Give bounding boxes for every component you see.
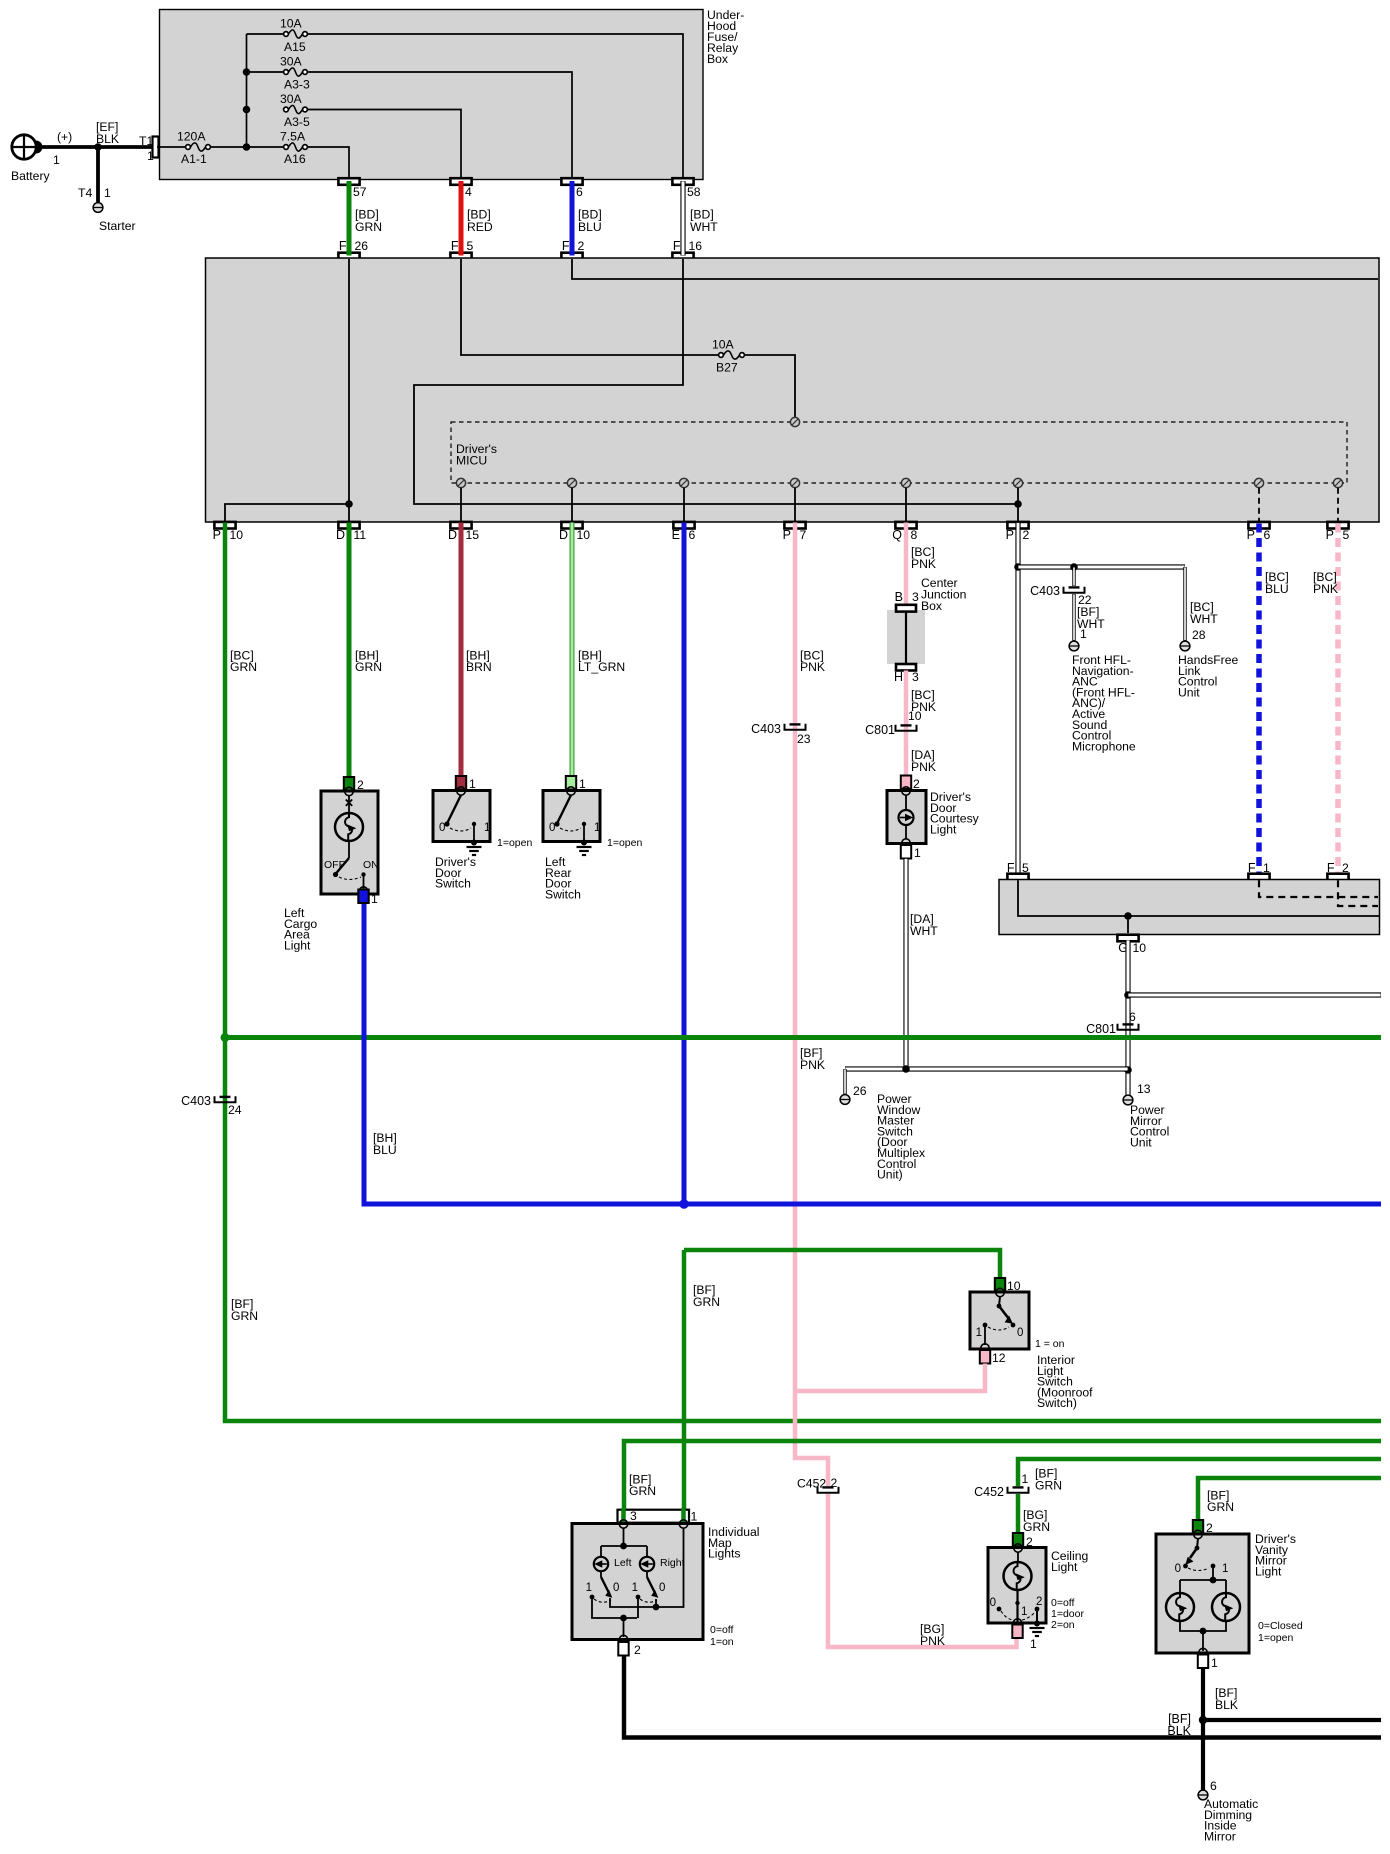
- node P2 wht junction: [1014, 563, 1022, 571]
- wire BF GRN vanity branch: [1198, 1478, 1381, 1520]
- wire fuse A3-3 to pin 6: [307, 72, 572, 179]
- ceiling light ground: [1034, 1621, 1040, 1627]
- svg-text:D: D: [448, 528, 457, 542]
- svg-text:P: P: [1326, 528, 1334, 542]
- svg-text:1: 1: [586, 1582, 592, 1594]
- svg-text:26: 26: [853, 1084, 867, 1098]
- svg-text:2: 2: [1036, 1596, 1042, 1608]
- wire D11 stub: [348, 504, 350, 522]
- svg-text:BLU: BLU: [1265, 582, 1289, 596]
- svg-text:1: 1: [691, 1510, 698, 1524]
- svg-text:2: 2: [578, 239, 585, 253]
- ceiling light: [988, 1548, 1046, 1624]
- map light left switch: [600, 1571, 602, 1577]
- wire E6 BLU: [682, 523, 687, 1205]
- wire wht branch to right edge: [1128, 992, 1381, 997]
- interior light switch pin 12: [980, 1350, 990, 1364]
- svg-text:F: F: [562, 239, 570, 253]
- wire BC PNK Q8: [904, 523, 909, 608]
- svg-text:2: 2: [913, 777, 920, 791]
- left cargo area light pin 1: [358, 890, 368, 904]
- svg-text:OFF: OFF: [324, 859, 345, 871]
- svg-text:B: B: [895, 590, 903, 604]
- svg-text:A16: A16: [284, 152, 306, 166]
- map lights internal power bus: [623, 1528, 625, 1546]
- svg-text:1=open: 1=open: [607, 837, 642, 849]
- wire P2 WHT to F5: [1015, 523, 1020, 875]
- connector F2: [561, 253, 582, 260]
- svg-text:C403: C403: [1030, 584, 1060, 598]
- svg-text:1: 1: [1222, 1563, 1228, 1575]
- wire DA WHT horizontal to PWMS: [845, 1066, 1128, 1071]
- svg-text:2: 2: [634, 1643, 641, 1657]
- svg-text:16: 16: [689, 239, 703, 253]
- svg-text:1: 1: [1030, 1637, 1037, 1651]
- door switch pin 1: [566, 776, 576, 790]
- wire BD RED: [459, 181, 464, 256]
- svg-text:12: 12: [992, 1351, 1006, 1365]
- MICU pin P2: [1013, 478, 1022, 487]
- svg-text:1: 1: [632, 1582, 638, 1594]
- svg-text:C801: C801: [865, 723, 895, 737]
- svg-text:6: 6: [689, 528, 696, 542]
- wire BC PNK P7: [795, 523, 828, 1487]
- wire fuse A16 to pin 57: [307, 147, 349, 179]
- map light right switch: [646, 1571, 648, 1577]
- svg-text:Left: Left: [614, 1557, 632, 1569]
- connector Q8: [895, 522, 916, 529]
- wire blue bus BH BLU: [364, 902, 1381, 1204]
- wire fuse A1-1 to bus: [210, 146, 284, 148]
- svg-text:Unit: Unit: [1178, 685, 1200, 699]
- wire BF BLK branch right: [1203, 1718, 1381, 1722]
- svg-text:T1: T1: [139, 134, 153, 148]
- svg-text:7: 7: [800, 528, 807, 542]
- wire to C403 pin 22: [1072, 567, 1075, 586]
- wire F16 to P2: [414, 259, 1018, 504]
- svg-text:1: 1: [147, 149, 154, 163]
- wire T4 to starter: [96, 147, 100, 202]
- svg-text:GRN: GRN: [1207, 1500, 1234, 1514]
- connector G10: [1117, 935, 1138, 942]
- node BLK junction: [1199, 1716, 1207, 1724]
- svg-text:Battery: Battery: [11, 169, 51, 183]
- wire BH BRN D15: [459, 523, 464, 777]
- svg-text:1=open: 1=open: [497, 837, 532, 849]
- under-hood fuse/relay box: [160, 10, 704, 180]
- node mic branch junction: [1070, 563, 1078, 571]
- svg-text:10A: 10A: [280, 17, 303, 31]
- connector C452 pin 1: [1008, 1487, 1029, 1493]
- power window master switch terminal 26: [840, 1095, 850, 1105]
- svg-text:57: 57: [353, 185, 367, 199]
- svg-text:E: E: [672, 528, 680, 542]
- svg-text:1: 1: [976, 1327, 982, 1339]
- svg-text:LT_GRN: LT_GRN: [578, 660, 625, 674]
- connector C801 pin 10: [896, 725, 917, 731]
- wire BD WHT: [680, 181, 685, 256]
- terminal T1: [153, 137, 159, 158]
- svg-text:Switch): Switch): [1037, 1396, 1077, 1410]
- wire bus to fuse A15: [247, 33, 285, 35]
- connector C403 pin 22: [1064, 587, 1085, 593]
- svg-text:10: 10: [1133, 941, 1147, 955]
- wire MICU Q8 stub: [905, 488, 907, 522]
- pin 4 connector: [450, 178, 471, 185]
- svg-text:1=open: 1=open: [1258, 1632, 1293, 1644]
- svg-text:3: 3: [912, 590, 919, 604]
- svg-text:A3-3: A3-3: [284, 78, 310, 92]
- wire BH LT_GRN D10: [570, 523, 575, 777]
- svg-text:H: H: [894, 670, 903, 684]
- svg-text:0: 0: [1017, 1327, 1023, 1339]
- connector D11: [338, 522, 359, 529]
- svg-text:0: 0: [990, 1597, 996, 1609]
- wire MICU D15 stub: [460, 488, 462, 522]
- svg-text:BLU: BLU: [373, 1143, 397, 1157]
- left cargo area light: [321, 791, 378, 894]
- svg-text:Lights: Lights: [708, 1547, 741, 1561]
- svg-text:0: 0: [613, 1582, 619, 1594]
- svg-text:A1-1: A1-1: [181, 152, 207, 166]
- roof control unit box: [999, 880, 1380, 935]
- svg-text:10: 10: [577, 528, 591, 542]
- fuse A15 10A: [284, 32, 289, 37]
- wire BC GRN P10 branch: [225, 523, 1381, 1422]
- svg-text:GRN: GRN: [1035, 1479, 1062, 1493]
- svg-text:0: 0: [659, 1582, 665, 1594]
- vanity right lamp: [1212, 1593, 1240, 1621]
- svg-text:8: 8: [911, 528, 918, 542]
- svg-text:1: 1: [484, 822, 490, 834]
- svg-text:GRN: GRN: [355, 660, 382, 674]
- driver's door courtesy light: [887, 791, 926, 844]
- svg-text:1: 1: [53, 153, 60, 167]
- svg-text:GRN: GRN: [231, 1309, 258, 1323]
- svg-text:5: 5: [467, 239, 474, 253]
- svg-text:1: 1: [579, 777, 586, 791]
- MICU pin D10: [567, 478, 576, 487]
- svg-text:7.5A: 7.5A: [280, 130, 306, 144]
- door switch contacts: [557, 795, 571, 824]
- svg-text:BLK: BLK: [96, 132, 119, 146]
- svg-text:1: 1: [469, 777, 476, 791]
- wire BG PNK C452 to ceiling light: [828, 1494, 1017, 1647]
- connector P2: [1007, 522, 1028, 529]
- svg-text:2=on: 2=on: [1051, 1619, 1075, 1631]
- svg-text:Light: Light: [1255, 1564, 1282, 1578]
- individual map lights: [572, 1524, 703, 1640]
- door switch ground: [581, 840, 587, 846]
- node bus junction A3-5 row: [243, 106, 251, 114]
- power mirror control unit terminal 13: [1123, 1095, 1133, 1105]
- handsfree link terminal 28: [1180, 641, 1190, 651]
- node E6 blue junction: [679, 1199, 689, 1209]
- MICU pin P7: [790, 478, 799, 487]
- wire F2 dashed internal: [1338, 880, 1378, 906]
- MICU pin P6: [1254, 478, 1263, 487]
- wire F5 to fuse B27: [461, 259, 719, 355]
- wire F2 to right edge: [572, 259, 1378, 279]
- pin 58 connector: [672, 178, 693, 185]
- left cargo area light pin 2: [344, 777, 354, 791]
- wire BF GRN map lights pin3: [624, 1441, 1381, 1523]
- driver's door courtesy light pin 2: [901, 776, 911, 790]
- svg-text:PNK: PNK: [911, 557, 936, 571]
- svg-text:C403: C403: [181, 1094, 211, 1108]
- wire BF GRN ceiling branch: [1018, 1459, 1381, 1486]
- svg-text:0: 0: [439, 822, 445, 834]
- pin 57 connector: [338, 178, 359, 185]
- driver's vanity mirror light pin 2: [1193, 1520, 1203, 1534]
- svg-text:T4: T4: [78, 186, 92, 200]
- bus vertical in fuse box: [246, 34, 248, 147]
- svg-text:Unit): Unit): [877, 1168, 903, 1182]
- wire fuse A15 to pin 58: [307, 34, 683, 179]
- svg-text:Light: Light: [1051, 1560, 1078, 1574]
- node bus junction A3-3 row: [243, 68, 251, 76]
- svg-text:C403: C403: [751, 722, 781, 736]
- cargo light switch: [348, 841, 350, 858]
- svg-text:26: 26: [355, 239, 369, 253]
- svg-text:1: 1: [104, 186, 111, 200]
- svg-text:0=Closed: 0=Closed: [1258, 1620, 1303, 1632]
- wire BH GRN D11: [347, 523, 352, 778]
- wire MICU P5 stub dashed: [1337, 488, 1339, 522]
- wire BF GRN to map light pin1: [682, 1250, 687, 1523]
- fuse A1-1 120A: [186, 145, 191, 150]
- svg-text:GRN: GRN: [230, 660, 257, 674]
- vanity left lamp: [1166, 1593, 1194, 1621]
- svg-text:11: 11: [354, 528, 367, 542]
- ceiling light switch: [1016, 1590, 1018, 1623]
- svg-text:A3-5: A3-5: [284, 115, 310, 129]
- svg-text:A15: A15: [284, 40, 306, 54]
- svg-text:Switch: Switch: [545, 887, 581, 901]
- svg-text:1: 1: [371, 892, 378, 906]
- wire BC PNK P5 dashed: [1335, 524, 1341, 875]
- svg-text:BLK: BLK: [1167, 1724, 1191, 1738]
- individual map lights connector housing: [618, 1510, 690, 1523]
- svg-text:1: 1: [1021, 1606, 1027, 1618]
- wire BF GRN to interior light switch: [684, 1250, 1000, 1278]
- node G10 junction: [1124, 912, 1132, 920]
- connector C801 pin 6: [1118, 1024, 1139, 1030]
- fuse A3-5 30A: [284, 107, 289, 112]
- svg-text:P: P: [783, 528, 791, 542]
- battery B1: [12, 135, 36, 159]
- vanity light lamp bus: [1210, 1577, 1217, 1584]
- wire wht to HFL unit 28: [1183, 567, 1186, 641]
- connector F26: [338, 253, 359, 260]
- wire bus to fuse A3-3: [247, 71, 285, 73]
- svg-text:1: 1: [1211, 1656, 1218, 1670]
- svg-text:WHT: WHT: [910, 924, 938, 938]
- center junction box internal wire: [905, 611, 907, 665]
- svg-text:GRN: GRN: [693, 1295, 720, 1309]
- connector C403 pin 24: [215, 1096, 236, 1102]
- node courtesy light junction: [902, 1065, 910, 1073]
- wire DA WHT: [903, 859, 908, 1070]
- wire F26 to D11/P10 bus: [348, 259, 350, 504]
- wire green bus BF GRN: [225, 1035, 1381, 1040]
- interior light switch: [970, 1292, 1029, 1349]
- connector F16: [672, 253, 693, 260]
- svg-text:WHT: WHT: [690, 220, 718, 234]
- svg-text:30A: 30A: [280, 55, 303, 69]
- ceiling light pin 2: [1013, 1533, 1023, 1547]
- wire PNK pin12 to P7 branch: [795, 1364, 985, 1392]
- svg-text:F: F: [673, 239, 681, 253]
- svg-text:4: 4: [465, 185, 472, 199]
- svg-text:Box: Box: [707, 52, 728, 66]
- svg-text:C452: C452: [797, 1477, 826, 1491]
- wire battery to T1: [36, 145, 153, 149]
- svg-text:0: 0: [1175, 1563, 1181, 1575]
- svg-text:WHT: WHT: [1190, 612, 1218, 626]
- svg-text:D: D: [559, 528, 568, 542]
- node EF junction: [94, 143, 102, 151]
- svg-text:B27: B27: [716, 361, 738, 375]
- ceiling light pin 1: [1012, 1625, 1022, 1639]
- map light left lamp: [594, 1557, 608, 1571]
- map light right lamp: [640, 1557, 654, 1571]
- MICU pin P7 top: [790, 417, 799, 426]
- svg-text:RED: RED: [467, 220, 493, 234]
- svg-text:ON: ON: [363, 859, 379, 871]
- wire MICU P7 stub: [794, 488, 796, 522]
- wire BD GRN: [347, 181, 352, 256]
- door switch ground: [471, 840, 477, 846]
- svg-text:BRN: BRN: [466, 660, 492, 674]
- wire bus to P10: [225, 504, 349, 522]
- starter terminal T4: [93, 203, 103, 213]
- svg-text:6: 6: [1129, 1010, 1136, 1024]
- MICU pin D15: [456, 478, 465, 487]
- svg-text:Starter: Starter: [99, 219, 136, 233]
- svg-text:1: 1: [914, 846, 921, 860]
- svg-text:Microphone: Microphone: [1072, 739, 1136, 753]
- svg-text:F: F: [339, 239, 347, 253]
- svg-text:5: 5: [1343, 528, 1350, 542]
- MICU pin Q8: [901, 478, 910, 487]
- interior light switch contacts: [999, 1297, 1000, 1307]
- svg-text:23: 23: [797, 732, 811, 746]
- driver's door courtesy light pin 1: [901, 845, 911, 859]
- svg-text:Unit: Unit: [1130, 1135, 1152, 1149]
- svg-text:C801: C801: [1086, 1022, 1116, 1036]
- svg-text:Switch: Switch: [435, 877, 471, 891]
- connector P7: [784, 522, 805, 529]
- svg-text:1: 1: [594, 822, 600, 834]
- wire BC PNK below CJB: [904, 671, 909, 776]
- svg-text:0: 0: [549, 822, 555, 834]
- fuse A3-3 30A: [284, 70, 289, 75]
- svg-text:6: 6: [1210, 1779, 1217, 1793]
- wire BF WHT to microphone: [1072, 594, 1075, 641]
- svg-text:GRN: GRN: [629, 1484, 656, 1498]
- svg-text:PNK: PNK: [1313, 582, 1338, 596]
- interior light switch pin 10: [995, 1278, 1005, 1292]
- wire BG GRN to ceiling pin 2: [1016, 1494, 1021, 1533]
- svg-text:15: 15: [466, 528, 480, 542]
- wire G10 WHT down: [1125, 940, 1130, 1095]
- door switch contacts: [447, 795, 461, 824]
- node wht branch right: [1124, 991, 1132, 999]
- wire MICU E6 stub: [683, 488, 685, 522]
- node bus junction A16 row: [243, 143, 251, 151]
- svg-text:10: 10: [908, 709, 922, 723]
- svg-text:Light: Light: [284, 938, 311, 952]
- wire black ground bus: [624, 1656, 1381, 1738]
- connector D15: [450, 522, 471, 529]
- driver's vanity mirror light pin 1: [1198, 1655, 1208, 1669]
- door switch body: [543, 791, 600, 842]
- svg-text:PNK: PNK: [911, 760, 936, 774]
- fuse A16 7.5A: [284, 145, 289, 150]
- individual map lights pin 2: [618, 1642, 628, 1656]
- node P2 junction: [1014, 500, 1022, 508]
- svg-text:28: 28: [1192, 628, 1206, 642]
- svg-text:P: P: [213, 528, 221, 542]
- door switch pin 1: [456, 776, 466, 790]
- connector P5: [1327, 522, 1348, 529]
- svg-text:PNK: PNK: [800, 1058, 825, 1072]
- wire MICU D10 stub: [571, 488, 573, 522]
- svg-text:GRN: GRN: [355, 220, 382, 234]
- svg-text:Light: Light: [930, 822, 957, 836]
- connector C403 pin 23: [785, 724, 806, 730]
- svg-text:C452: C452: [974, 1485, 1004, 1499]
- svg-text:MICU: MICU: [456, 454, 487, 468]
- MICU pin P5: [1333, 478, 1342, 487]
- svg-text:10: 10: [230, 528, 244, 542]
- wire BF BLK vanity to mirror: [1201, 1668, 1205, 1794]
- auto dimming mirror terminal 6: [1198, 1790, 1208, 1800]
- svg-text:2: 2: [1023, 528, 1030, 542]
- wire BC BLU P6 dashed: [1256, 524, 1262, 875]
- svg-text:3: 3: [912, 670, 919, 684]
- pin 6 connector: [561, 178, 582, 185]
- svg-text:6: 6: [576, 185, 583, 199]
- map lights pin1 internal: [610, 1528, 684, 1607]
- svg-text:Q: Q: [892, 528, 902, 542]
- wire wht branch to HFL: [1018, 564, 1185, 569]
- svg-text:P: P: [1006, 528, 1014, 542]
- svg-text:GRN: GRN: [1023, 1520, 1050, 1534]
- connector E6: [673, 522, 694, 529]
- svg-text:24: 24: [228, 1103, 242, 1117]
- MICU pin E6: [679, 478, 688, 487]
- wire MICU P2 stub: [1017, 488, 1019, 522]
- svg-text:1: 1: [1080, 627, 1087, 641]
- svg-text:6: 6: [1264, 528, 1271, 542]
- node PMCU junction: [1124, 1066, 1132, 1074]
- svg-text:120A: 120A: [177, 130, 206, 144]
- svg-text:1: 1: [1022, 1472, 1029, 1486]
- svg-text:58: 58: [687, 185, 701, 199]
- wire fuse A3-5 to pin 4: [307, 110, 461, 180]
- Driver's MICU dashed box: [451, 422, 1347, 483]
- svg-text:PNK: PNK: [800, 660, 825, 674]
- node D11 junction: [345, 500, 353, 508]
- svg-text:BLU: BLU: [578, 220, 602, 234]
- svg-text:Right: Right: [660, 1557, 685, 1569]
- wire T1 to fuse A1-1: [157, 146, 186, 148]
- microphone terminal 1: [1069, 641, 1079, 651]
- svg-text:10A: 10A: [712, 338, 735, 352]
- svg-text:1=on: 1=on: [710, 1636, 734, 1648]
